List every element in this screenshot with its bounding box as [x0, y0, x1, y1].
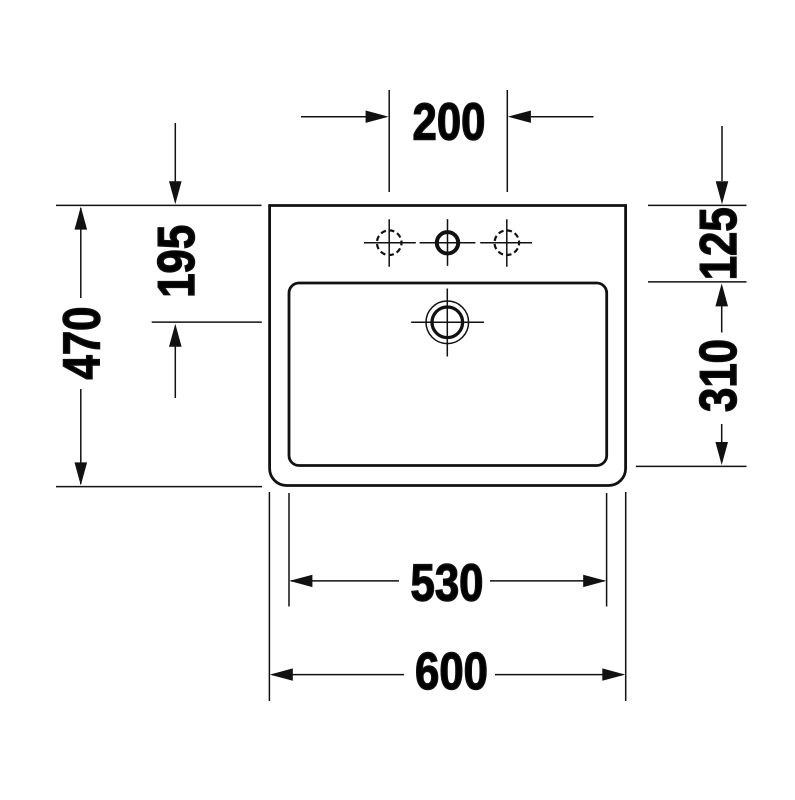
svg-text:530: 530 — [411, 555, 484, 612]
centre tap hole — [420, 219, 476, 266]
dimension 310: label — [690, 339, 747, 412]
bottom outer extension lines (600) — [269, 492, 625, 701]
dimension 310: bottom arrow — [715, 424, 728, 465]
left optional tap hole (dashed) — [364, 219, 416, 267]
dimension 470: dimension line with arrows — [75, 207, 88, 486]
overflow / drain hole — [411, 289, 484, 357]
svg-text:200: 200 — [413, 94, 486, 151]
dimension 195: label — [149, 225, 206, 298]
svg-text:125: 125 — [690, 207, 747, 280]
dimension 470: label — [54, 307, 111, 380]
dimension 195: extension line at drain level — [152, 321, 262, 323]
right bottom extension line (basin bottom) — [636, 465, 747, 467]
bottom inner extension lines (530) — [289, 493, 607, 607]
dimension 530: label — [411, 555, 484, 612]
dimension 125: label — [690, 207, 747, 280]
inner basin outline — [289, 283, 607, 466]
dimension 195: upper outside arrow — [169, 123, 182, 204]
left bottom extension line — [56, 486, 262, 488]
dimension 530: line and arrows — [289, 575, 606, 587]
dimension 200: extension lines — [389, 90, 507, 192]
dimension 200: label — [413, 94, 486, 151]
right optional tap hole (dashed) — [480, 219, 532, 267]
dimension 125: upper outside arrow — [716, 126, 729, 204]
dimension 200: left arrow — [301, 111, 389, 123]
washbasin outer outline (top view) — [270, 206, 626, 486]
svg-text:310: 310 — [690, 339, 747, 412]
dimension 600: label — [415, 644, 488, 701]
right middle extension line (basin top) — [648, 281, 747, 283]
dimension 600: line and arrows — [270, 668, 626, 680]
dimension 310: top arrow — [715, 283, 728, 332]
dimension 200: right arrow — [508, 111, 594, 123]
svg-text:600: 600 — [415, 644, 488, 701]
svg-text:470: 470 — [54, 307, 111, 380]
svg-text:195: 195 — [149, 225, 206, 298]
left top extension line — [56, 204, 262, 206]
right top extension line — [648, 204, 747, 206]
dimension 195: lower outside arrow — [169, 324, 182, 398]
